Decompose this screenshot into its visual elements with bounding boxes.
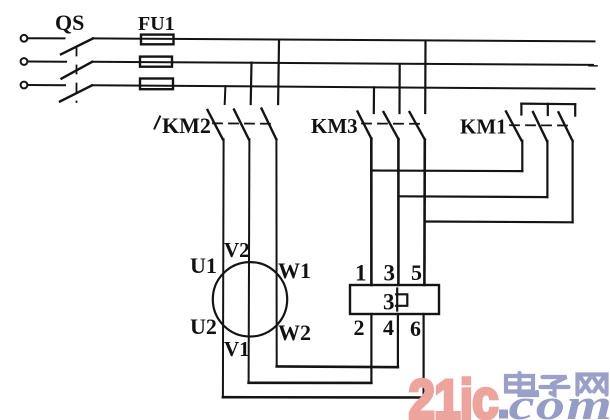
contactor KM3 blade pole1 bbox=[358, 112, 372, 139]
wire KM3 pole1 to box terminal1 bbox=[370, 139, 373, 286]
svg-text:QS: QS bbox=[55, 10, 84, 35]
svg-text:5: 5 bbox=[411, 260, 422, 285]
svg-text:KM2: KM2 bbox=[162, 113, 211, 138]
contactor KM2 blade pole2 bbox=[234, 110, 249, 140]
terminal L1 bbox=[21, 35, 28, 42]
svg-text:3: 3 bbox=[384, 261, 396, 286]
wire terminal2 riser bbox=[370, 314, 372, 383]
terminal L2 bbox=[21, 58, 28, 65]
wire L3 stub bbox=[28, 84, 65, 86]
watermark chinese wang bbox=[578, 375, 607, 395]
svg-text:3: 3 bbox=[383, 290, 395, 315]
wire KM1 pole1 to node1 bbox=[371, 169, 522, 172]
contactor KM3 blade pole3 bbox=[410, 112, 425, 140]
terminal L3 bbox=[21, 82, 28, 89]
watermark chinese dian bbox=[506, 373, 537, 395]
svg-text:W2: W2 bbox=[278, 320, 311, 345]
switch QS blade pole2 bbox=[62, 62, 93, 79]
svg-text:4: 4 bbox=[383, 315, 394, 340]
wire motor lead V bbox=[248, 139, 251, 382]
watermark chinese zi bbox=[541, 377, 569, 395]
KM1 star bridge middle stub bbox=[547, 104, 549, 115]
switch QS blade pole1 bbox=[61, 38, 93, 54]
svg-text:U2: U2 bbox=[190, 314, 217, 339]
svg-text:2: 2 bbox=[354, 315, 365, 340]
wire KM1 pole2 riser bbox=[546, 141, 548, 197]
wire drop L3 to KM3 pole1 bbox=[373, 87, 375, 113]
contactor KM3 linkage dashed bbox=[362, 123, 419, 125]
svg-text:FU1: FU1 bbox=[138, 13, 175, 35]
contactor KM1 blade pole1 bbox=[506, 112, 522, 141]
wire KM1 pole3 to node5 bbox=[425, 220, 573, 223]
wire drop L2 to KM3 pole2 bbox=[398, 64, 400, 113]
contactor KM2 linkage dashed bbox=[213, 122, 274, 125]
wire terminal4 riser bbox=[397, 314, 399, 367]
svg-text:KM3: KM3 bbox=[311, 114, 358, 138]
switch QS blade pole3 bbox=[60, 85, 92, 101]
wire KM1 pole2 to node3 bbox=[399, 195, 548, 198]
fuse FU1 pole3 bbox=[140, 79, 173, 90]
wire V1 to terminal2 bottom bbox=[249, 381, 372, 384]
contactor KM2 blade pole1 bbox=[208, 110, 223, 139]
svg-text:W1: W1 bbox=[278, 258, 311, 283]
wire motor lead U bbox=[222, 139, 225, 397]
wire KM3 pole2 to box terminal3 bbox=[397, 139, 400, 285]
svg-text:com: com bbox=[509, 381, 610, 420]
wire drop L2 to KM2 pole2 bbox=[250, 63, 253, 104]
wire L1 stub bbox=[28, 37, 65, 39]
svg-text:KM1: KM1 bbox=[460, 115, 507, 139]
fuse FU1 pole2 bbox=[140, 57, 172, 67]
contactor KM1 blade pole2 bbox=[533, 112, 547, 141]
wire rail L2 bbox=[92, 62, 593, 65]
rail L2 end tick bbox=[589, 65, 597, 67]
watermark .com bbox=[499, 381, 610, 420]
KM2 arrow mark bbox=[155, 117, 161, 129]
KM1 star bridge right stub bbox=[574, 104, 576, 115]
wire KM1 pole1 riser bbox=[521, 141, 523, 172]
contactor KM3 blade pole2 bbox=[384, 112, 399, 139]
svg-text:V2: V2 bbox=[224, 238, 250, 262]
wire KM3 pole3 to box terminal5 bbox=[423, 140, 426, 286]
watermark 21ic bbox=[409, 369, 498, 420]
wire W2 to terminal4 bottom bbox=[277, 365, 398, 368]
box step symbol bbox=[396, 289, 407, 311]
KM1 star bridge left stub bbox=[520, 104, 522, 115]
wire drop L3 to KM2 pole1 bbox=[224, 86, 227, 104]
contactor KM1 linkage dashed bbox=[510, 124, 568, 126]
fuse FU1 pole1 bbox=[141, 35, 174, 45]
contactor KM1 blade pole3 bbox=[559, 112, 573, 141]
wire terminal6 riser bbox=[423, 314, 425, 398]
KM1 star bridge bar bbox=[521, 102, 575, 105]
wire rail L3 bbox=[92, 85, 595, 89]
wire drop L1 to KM3 pole3 bbox=[424, 41, 426, 113]
speed selector box bbox=[350, 285, 439, 314]
switch QS linkage dashed bbox=[76, 48, 78, 103]
motor M circle bbox=[213, 262, 287, 336]
contactor KM2 blade pole3 bbox=[262, 109, 277, 140]
svg-text:U1: U1 bbox=[190, 253, 217, 278]
svg-text:6: 6 bbox=[410, 316, 421, 341]
wire rail L1 bbox=[93, 38, 595, 41]
svg-text:1: 1 bbox=[355, 261, 367, 286]
wire drop L1 to KM2 pole3 bbox=[277, 41, 280, 104]
wire KM1 pole3 riser bbox=[571, 141, 573, 222]
svg-text:21ic: 21ic bbox=[409, 369, 498, 420]
wire U2 to terminal6 bottom bbox=[223, 396, 424, 399]
wire L2 stub bbox=[28, 61, 66, 63]
wire motor lead W bbox=[275, 139, 277, 366]
svg-text:V1: V1 bbox=[224, 337, 250, 361]
